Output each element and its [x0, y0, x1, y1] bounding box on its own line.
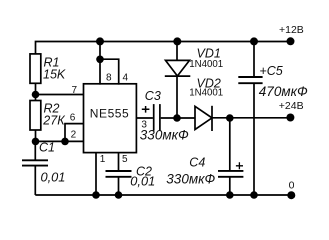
svg-text:NE555: NE555 [90, 106, 129, 120]
svg-text:+C5: +C5 [259, 64, 282, 78]
svg-text:470мкФ: 470мкФ [259, 84, 308, 99]
svg-text:1N4001: 1N4001 [189, 88, 223, 99]
svg-text:C4: C4 [189, 156, 205, 170]
svg-text:330мкФ: 330мкФ [166, 171, 215, 186]
svg-text:4: 4 [123, 72, 129, 83]
svg-text:1N4001: 1N4001 [189, 59, 223, 70]
svg-text:0: 0 [289, 179, 295, 191]
svg-text:C3: C3 [145, 89, 161, 103]
svg-text:6: 6 [70, 112, 76, 123]
svg-text:0,01: 0,01 [130, 173, 155, 188]
svg-text:+24В: +24В [279, 100, 304, 112]
svg-text:1: 1 [100, 154, 106, 165]
svg-text:15K: 15K [43, 68, 66, 82]
svg-text:5: 5 [122, 154, 128, 165]
svg-text:3: 3 [141, 119, 147, 130]
svg-text:2: 2 [71, 130, 77, 141]
svg-text:0,01: 0,01 [41, 169, 66, 184]
svg-text:330мкФ: 330мкФ [140, 128, 189, 143]
svg-text:8: 8 [106, 72, 112, 83]
svg-text:7: 7 [72, 85, 78, 96]
svg-text:27К: 27К [42, 114, 65, 128]
svg-text:+12В: +12В [279, 24, 304, 36]
svg-text:C1: C1 [39, 140, 55, 154]
